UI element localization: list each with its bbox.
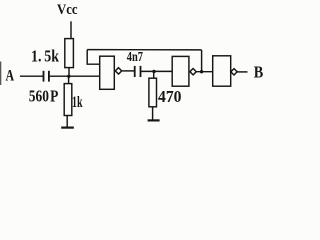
wire feedback right drop — [201, 50, 203, 72]
svg-text:1k: 1k — [72, 94, 83, 111]
wire feedback into U1 upper input — [87, 50, 100, 65]
wire C1 to U1 input — [50, 75, 100, 77]
wire R1 bottom to node — [68, 68, 70, 77]
svg-text:Vcc: Vcc — [57, 2, 78, 18]
capacitor C2 4n7 plates — [134, 66, 136, 77]
ground under R3 — [148, 119, 160, 121]
svg-text:4n7: 4n7 — [127, 49, 143, 64]
inverter U1 body — [100, 56, 115, 89]
wire feedback top run — [87, 49, 201, 51]
junction node at R3 top — [152, 70, 155, 73]
inverter U1 output bubble — [115, 68, 121, 74]
inverter U3 output bubble — [231, 69, 237, 75]
wire R2 to ground — [66, 116, 68, 128]
resistor R3 470 body — [149, 78, 157, 107]
inverter U3 body — [213, 56, 231, 86]
svg-text:1. 5k: 1. 5k — [31, 46, 60, 65]
junction node at feedback tap — [200, 70, 203, 73]
svg-text:470: 470 — [158, 87, 182, 106]
inverter U2 output bubble — [190, 69, 196, 75]
svg-text:B: B — [254, 63, 263, 82]
wire node to R2 — [68, 76, 70, 83]
svg-text:560 P: 560 P — [29, 86, 59, 105]
inverter U2 body — [172, 56, 189, 86]
resistor R1 1.5k body — [65, 39, 74, 68]
wire A to C1 — [20, 75, 43, 77]
wire Vcc to R1 — [70, 21, 72, 38]
junction node at R1/R2/A line — [67, 75, 70, 78]
wire U2 to U3 — [197, 71, 213, 73]
capacitor C1 560P plates — [43, 71, 45, 82]
wire U1 to C2 — [122, 70, 134, 72]
resistor R2 1k body — [64, 84, 72, 116]
svg-text:A: A — [6, 68, 15, 85]
wire C2 to U2 input — [141, 70, 172, 72]
wire U3 to B — [237, 71, 247, 73]
ground under R2 — [61, 126, 74, 128]
wire node to R3 — [153, 72, 155, 79]
wire R3 to ground — [152, 107, 154, 120]
scan artifact left edge mark — [0, 62, 1, 86]
